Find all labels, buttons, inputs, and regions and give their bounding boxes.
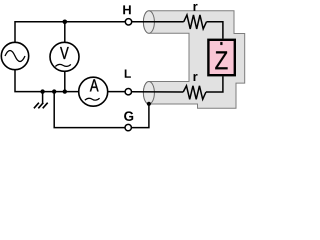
DUT Z box <box>208 40 234 75</box>
resistor r (bottom) <box>183 86 206 100</box>
ground hatches <box>34 103 48 109</box>
resistor r (top) <box>184 15 207 29</box>
wire A meter to L terminal <box>108 91 125 93</box>
wire V branch top <box>64 22 66 43</box>
junction node ground tap <box>40 89 44 93</box>
shield fixture body (gray) <box>143 11 244 109</box>
coax cap bottom ellipse <box>143 82 154 105</box>
terminal G <box>125 124 131 130</box>
AC source sine <box>5 51 25 62</box>
label r top <box>194 4 198 11</box>
label r bottom <box>194 74 198 81</box>
wire top H line <box>15 22 125 43</box>
voltmeter tilde <box>55 64 71 66</box>
ammeter A letter <box>90 79 99 91</box>
AC source circle <box>1 42 28 69</box>
ammeter tilde <box>85 98 100 100</box>
wire Z box bottom to resistor r2 <box>206 76 223 92</box>
wire resistor r1 to Z box top <box>206 22 222 39</box>
wire V branch bottom <box>64 71 66 91</box>
terminal H <box>125 19 131 25</box>
junction node G loop tap <box>52 89 56 93</box>
wire G terminal to shield <box>131 104 149 128</box>
voltmeter V circle <box>50 42 79 71</box>
wire G loop <box>54 92 125 128</box>
junction node V bottom <box>63 89 67 93</box>
ground stub <box>42 92 44 103</box>
ammeter A circle <box>79 77 108 106</box>
voltmeter V letter <box>60 47 69 59</box>
wire H terminal to resistor r1 <box>132 21 184 23</box>
label H <box>123 5 131 14</box>
label L <box>125 69 131 77</box>
junction node shield connection <box>147 102 151 106</box>
label G <box>124 111 133 121</box>
junction node on top wire <box>63 20 68 25</box>
coax cap top ellipse <box>143 11 154 33</box>
wire bottom bus <box>15 70 79 92</box>
terminal L <box>125 89 131 95</box>
wire resistor r2 to L terminal <box>132 91 184 93</box>
DUT Z label <box>215 42 227 69</box>
